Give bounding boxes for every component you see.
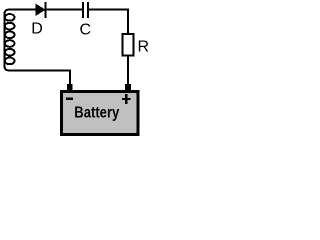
svg-text:C: C	[80, 22, 92, 39]
battery minus terminal post	[67, 84, 73, 90]
wire capacitor to top-right corner down to resistor	[89, 10, 128, 35]
battery body	[62, 91, 139, 134]
inductor L loop 4	[5, 40, 15, 47]
resistor R body	[122, 34, 133, 56]
inductor L loop 5	[5, 49, 15, 56]
diode D cathode bar	[45, 2, 47, 18]
battery plus terminal post	[125, 84, 131, 90]
battery plus sign	[122, 98, 131, 100]
wire diode to capacitor	[47, 9, 83, 11]
inductor L loop 6	[5, 58, 15, 65]
wire top-left from coil to diode	[5, 10, 36, 15]
capacitor C left plate	[82, 2, 84, 18]
inductor L coil left line	[4, 13, 6, 67]
wire coil bottom to battery minus terminal	[5, 66, 71, 85]
diode D triangle	[36, 4, 46, 17]
inductor L loop 3	[5, 31, 15, 38]
svg-text:Battery: Battery	[74, 105, 119, 122]
svg-text:D: D	[31, 21, 43, 38]
inductor L loop 2	[5, 23, 15, 30]
inductor L loop 1	[5, 14, 15, 21]
battery minus sign	[66, 98, 73, 100]
svg-text:R: R	[138, 39, 150, 56]
wire resistor to battery plus terminal	[127, 57, 129, 86]
capacitor C right plate	[87, 2, 89, 18]
